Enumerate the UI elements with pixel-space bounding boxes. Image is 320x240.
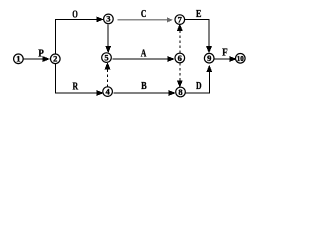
node 6 <box>175 53 185 63</box>
svg-text:6: 6 <box>178 53 182 63</box>
svg-text:E: E <box>196 8 202 20</box>
wire D path 8 corner up to 9 <box>186 66 212 93</box>
wire dashed dummy 6 down to 8 <box>178 63 182 86</box>
wire arrow 3 down to 5 <box>106 25 110 52</box>
wire 2 down corner R to 4 <box>55 64 102 95</box>
node 9 <box>204 53 214 63</box>
wire dashed dummy 6 up to 7 <box>178 25 182 53</box>
node 8 <box>176 87 186 97</box>
wire 2 up corner O to 3 <box>55 17 102 53</box>
svg-text:4: 4 <box>105 86 110 96</box>
wire F arrow 9-10 <box>214 57 235 61</box>
svg-text:10: 10 <box>237 54 244 63</box>
svg-text:5: 5 <box>104 52 108 62</box>
node 7 <box>175 15 185 25</box>
svg-text:8: 8 <box>178 87 182 97</box>
svg-text:1: 1 <box>16 54 20 64</box>
svg-text:F: F <box>222 47 228 59</box>
svg-text:B: B <box>141 80 147 92</box>
svg-text:3: 3 <box>106 14 110 24</box>
node 4 <box>103 87 113 97</box>
svg-text:P: P <box>38 48 44 60</box>
svg-text:D: D <box>196 80 202 92</box>
node 10 <box>236 54 246 64</box>
wire dashed dummy 4 up to 5 <box>105 64 109 88</box>
svg-text:O: O <box>72 8 78 20</box>
wire P arrow 1-2 <box>24 57 49 61</box>
svg-text:C: C <box>141 8 147 20</box>
node 1 <box>14 54 24 64</box>
node 2 <box>51 54 61 64</box>
wire C arrow 3-7 (grey) <box>118 17 174 22</box>
node 3 <box>104 14 114 24</box>
wire A arrow 5-6 <box>113 57 174 61</box>
svg-text:R: R <box>73 81 79 93</box>
svg-text:A: A <box>141 47 147 59</box>
svg-text:7: 7 <box>178 14 183 24</box>
svg-text:2: 2 <box>53 54 57 64</box>
wire B arrow 4-8 <box>114 91 175 95</box>
node 5 <box>102 53 112 63</box>
svg-text:9: 9 <box>207 53 211 63</box>
wire E path 7 corner down to 9 <box>185 19 212 52</box>
